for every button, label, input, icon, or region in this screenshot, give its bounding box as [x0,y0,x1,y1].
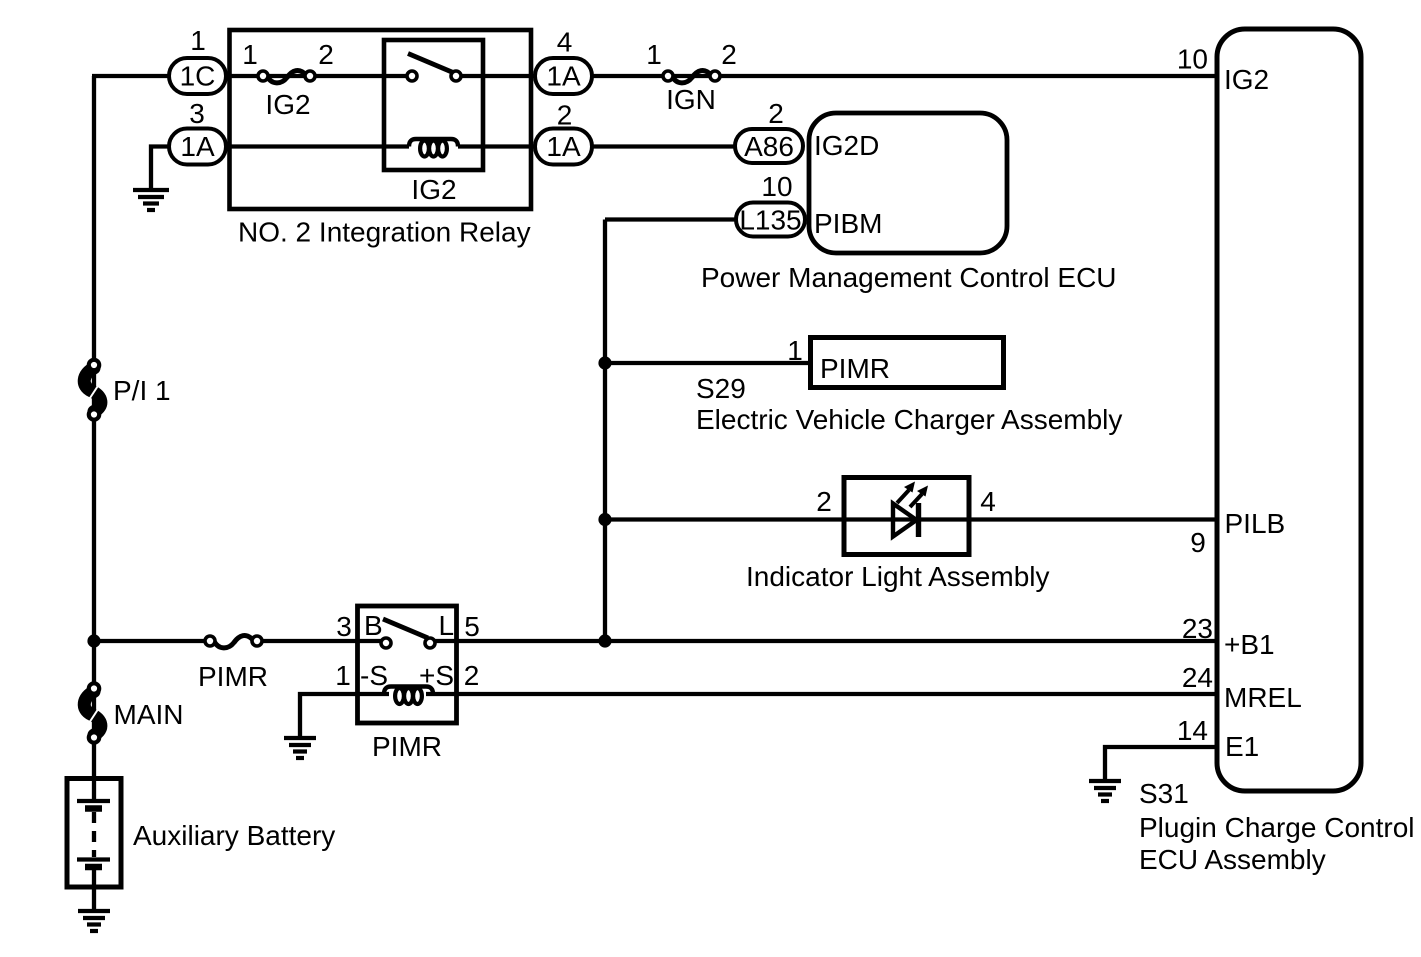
svg-text:Indicator Light Assembly: Indicator Light Assembly [746,561,1050,592]
relay coil-switch inner box IG2 [384,40,483,170]
svg-text:4: 4 [980,486,996,517]
wire fuse PIMR to relay PIMR pin3 [259,639,386,643]
battery box Auxiliary Battery [67,779,121,888]
relay box NO. 2 Integration Relay [230,30,532,209]
svg-text:-S: -S [360,660,388,691]
node junction +B1 feed [598,634,611,647]
svg-text:5: 5 [464,611,480,642]
svg-text:Auxiliary Battery: Auxiliary Battery [133,820,335,851]
wire junction to fuse PIMR [94,639,207,643]
connector 1A pin4 [535,58,592,94]
svg-text:IG2: IG2 [411,174,456,205]
connector A86 [735,129,803,163]
svg-text:A86: A86 [744,131,794,162]
svg-text:IG2: IG2 [1224,64,1269,95]
svg-text:14: 14 [1177,715,1208,746]
svg-text:Plugin Charge Control: Plugin Charge Control [1139,812,1415,843]
svg-text:ECU Assembly: ECU Assembly [1139,844,1326,875]
switch blade of relay IG2 [408,54,453,73]
indicator light box [844,478,969,555]
svg-text:1: 1 [190,25,206,56]
svg-text:2: 2 [464,660,480,691]
ground at connector 1A [133,190,169,210]
wire L135 vertical drop [603,220,607,642]
wire to EV charger PIMR pin 1 [605,361,812,365]
svg-text:2: 2 [768,98,784,129]
wire IGN feed from 1A pin4 to ECU IG2 [588,74,1217,78]
wire row 1 inside relay from 1C to switch [224,74,412,78]
ECU box Power Management Control ECU [809,113,1007,253]
wire row 2 coil to connector 1A pin2 [458,144,536,148]
wire L135 horizontal [605,217,738,221]
fuse PIMR [205,636,262,648]
ECU box Plugin Charge Control ECU Assembly [1217,29,1361,791]
svg-text:2: 2 [721,39,737,70]
fusible link P/I 1 [84,360,101,420]
ground at relay PIMR [284,738,316,758]
wire relay PIMR pin2 to ECU MREL [426,692,1217,696]
svg-text:4: 4 [557,27,573,58]
switch contact L [425,638,435,648]
svg-text:9: 9 [1190,527,1206,558]
svg-text:IG2D: IG2D [814,130,879,161]
battery cell symbol [77,778,110,909]
svg-text:MAIN: MAIN [114,699,184,730]
wire indicator light row to ECU PILB [605,517,1217,521]
wire connector 1A pin3 ground stub [151,147,170,191]
switch contact right [451,71,461,81]
wire top-left horizontal to connector 1C [92,74,171,78]
svg-text:PIMR: PIMR [372,731,442,762]
wire row 1 switch to connector 1A pin4 [456,74,536,78]
connector 1A pin2 [535,129,592,165]
relay box PIMR [358,606,457,723]
svg-text:1A: 1A [546,131,581,162]
svg-text:1C: 1C [180,61,216,92]
connector L135 [736,203,805,237]
svg-text:1: 1 [335,660,351,691]
svg-text:1: 1 [242,39,258,70]
switch blade of relay PIMR [383,619,428,638]
fusible link MAIN [84,683,101,742]
svg-text:2: 2 [816,486,832,517]
svg-text:2: 2 [557,100,573,131]
svg-text:1: 1 [787,335,803,366]
fuse IG2 [258,71,315,83]
connector 1A pin3 [169,129,226,165]
svg-text:10: 10 [761,171,792,202]
relay coil PIMR [384,687,433,705]
node junction EV charger feed [598,356,611,369]
wire ECU E1 to ground [1105,747,1217,779]
svg-text:S29: S29 [696,373,746,404]
connector 1C [169,58,226,94]
svg-text:1A: 1A [180,131,215,162]
svg-text:2: 2 [318,39,334,70]
svg-text:3: 3 [189,98,205,129]
svg-text:B: B [364,610,383,641]
svg-text:PIMR: PIMR [820,353,890,384]
wire ground riser to relay PIMR pin1 [300,694,389,736]
svg-text:24: 24 [1182,662,1213,693]
svg-text:S31: S31 [1139,778,1189,809]
svg-text:NO. 2 Integration Relay: NO. 2 Integration Relay [238,217,531,248]
svg-text:L: L [439,610,455,641]
svg-text:IGN: IGN [666,84,716,115]
svg-text:Power Management Control ECU: Power Management Control ECU [701,262,1117,293]
ground S31 [1089,781,1121,801]
svg-text:1A: 1A [546,61,581,92]
svg-text:MREL: MREL [1224,682,1302,713]
switch contact left [407,71,417,81]
svg-text:L135: L135 [739,205,801,236]
svg-text:1: 1 [646,39,662,70]
svg-text:Electric Vehicle Charger Assem: Electric Vehicle Charger Assembly [696,404,1122,435]
svg-text:23: 23 [1182,613,1213,644]
svg-text:P/I 1: P/I 1 [113,375,171,406]
relay coil IG2 [409,139,458,157]
LED symbol [893,482,928,538]
svg-text:PIMR: PIMR [198,661,268,692]
svg-text:E1: E1 [1225,731,1259,762]
svg-text:PIBM: PIBM [814,208,882,239]
svg-text:IG2: IG2 [265,89,310,120]
node junction indicator feed [598,513,611,526]
node junction battery feed [87,634,100,647]
ground at battery [78,911,110,931]
wire from 1A pin2 to A86 [588,144,738,148]
svg-text:+B1: +B1 [1224,629,1275,660]
fuse IGN [663,71,720,83]
svg-text:PILB: PILB [1225,508,1286,539]
wire left battery bus vertical [92,76,96,778]
switch contact B [381,638,391,648]
wire relay PIMR pin5 to ECU +B1 [429,639,1217,643]
svg-text:10: 10 [1177,44,1208,75]
wire row 2 from 1A pin3 to coil [224,144,409,148]
svg-text:3: 3 [336,611,352,642]
EV charger box PIMR [811,338,1004,388]
